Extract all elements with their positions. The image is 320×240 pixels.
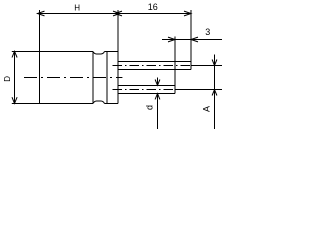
H left arrow	[38, 11, 45, 16]
dimension d upper line	[157, 78, 159, 86]
svg-text:3: 3	[205, 27, 210, 37]
A down arrow at top lead centerline	[212, 60, 217, 66]
body centerline	[24, 77, 122, 79]
bottom lead end face merged with 3 dimension extension line	[174, 37, 176, 94]
top lead centerline	[113, 65, 192, 67]
dimension d lower line	[157, 93, 159, 129]
3 left arrow pointing right	[168, 37, 175, 42]
bottom lead top edge	[118, 85, 175, 87]
capacitor body bottom edge right of crimp	[105, 103, 119, 105]
bottom lead bottom edge	[118, 93, 175, 95]
crimp ring left vertical	[92, 52, 94, 104]
3 right arrow pointing left	[191, 37, 198, 42]
extension line of H dimension at body rear face	[39, 10, 41, 51]
top lead top edge	[118, 61, 191, 63]
svg-text:16: 16	[148, 2, 158, 12]
svg-text:d: d	[145, 105, 155, 110]
top lead end face merged with 16 dimension extension line	[190, 10, 192, 70]
crimp groove top dip	[93, 52, 105, 55]
top lead centerline extension to A dimension	[191, 65, 222, 67]
crimp ring right vertical	[106, 52, 108, 103]
d down arrow	[155, 80, 160, 86]
bottom lead centerline extension to A dimension	[175, 89, 222, 91]
H right arrow crossing at seal face	[113, 11, 120, 16]
svg-text:D: D	[3, 76, 12, 82]
bottom lead centerline	[113, 89, 176, 91]
capacitor body bottom edge with D extension line	[12, 103, 93, 105]
d up arrow	[155, 94, 160, 100]
D bottom arrow	[12, 97, 17, 103]
dimension line H and 16	[37, 13, 191, 15]
dimension A line	[214, 55, 216, 130]
capacitor body left edge	[39, 51, 41, 104]
svg-text:A: A	[202, 106, 212, 112]
dimension D line	[14, 51, 16, 104]
svg-text:H: H	[74, 3, 80, 12]
capacitor body top edge right of crimp	[105, 51, 119, 53]
seal end face merged with extension line of H and 16 dimensions	[117, 10, 119, 104]
crimp groove bottom bump	[93, 101, 105, 104]
A up arrow at bottom lead centerline	[212, 90, 217, 96]
16 left arrow crossing at seal face	[115, 11, 122, 16]
D top arrow	[12, 51, 17, 57]
dimension 3 line with outside leaders	[162, 39, 222, 41]
capacitor body top edge with D extension line	[12, 51, 93, 53]
top lead bottom edge	[118, 69, 191, 71]
16 right arrow	[184, 11, 191, 16]
